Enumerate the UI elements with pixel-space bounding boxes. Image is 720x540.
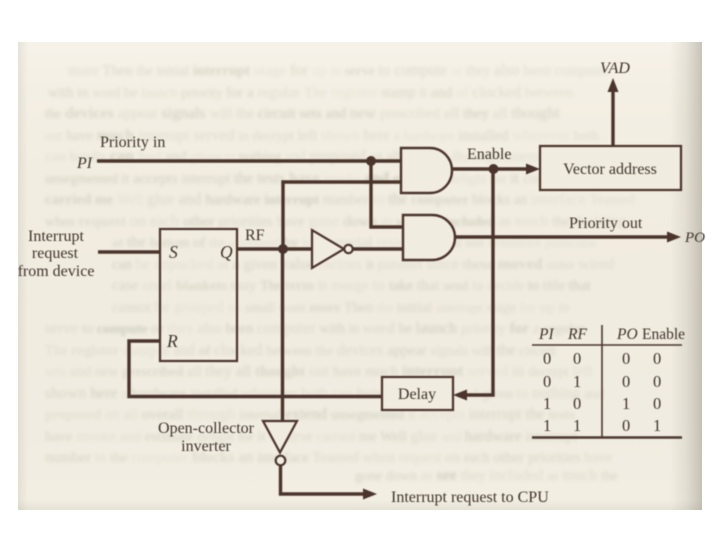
- svg-text:0: 0: [653, 372, 661, 391]
- svg-text:1: 1: [653, 416, 661, 435]
- svg-text:R: R: [166, 331, 178, 351]
- inverter U3: [312, 230, 353, 268]
- svg-text:Priority out: Priority out: [569, 215, 643, 232]
- svg-text:PI: PI: [538, 326, 554, 343]
- svg-text:Q: Q: [220, 242, 233, 262]
- wire S input: [98, 250, 160, 253]
- wire Enable branch down to delay: [467, 169, 493, 395]
- svg-text:1: 1: [543, 416, 551, 435]
- wire inverter output to AND2: [353, 247, 403, 250]
- vector address box: [540, 146, 681, 190]
- arrowhead into delay: [453, 390, 467, 401]
- svg-text:PO: PO: [616, 326, 638, 343]
- table vertical divider: [601, 325, 603, 437]
- wire PO output: [454, 235, 669, 238]
- wire open-collector output to CPU: [281, 466, 366, 494]
- svg-text:1: 1: [543, 394, 551, 413]
- truth table: [538, 326, 685, 435]
- svg-text:0: 0: [653, 349, 661, 368]
- svg-text:1: 1: [573, 416, 581, 435]
- svg-text:0: 0: [573, 349, 581, 368]
- AND gate U2 (priority out): [403, 215, 455, 260]
- svg-text:VAD: VAD: [600, 60, 630, 77]
- svg-text:Interrupt request to CPU: Interrupt request to CPU: [391, 489, 549, 506]
- svg-text:1: 1: [573, 372, 581, 391]
- flip-flop box: [160, 229, 237, 361]
- svg-text:Interrupt: Interrupt: [28, 228, 85, 245]
- arrowhead into vector address: [526, 164, 540, 175]
- arrowhead VAD: [608, 78, 619, 92]
- arrowhead PO: [667, 232, 681, 243]
- svg-text:0: 0: [622, 372, 630, 391]
- AND gate U1 (enable): [401, 148, 452, 193]
- svg-text:0: 0: [653, 394, 661, 413]
- svg-text:Vector address: Vector address: [563, 161, 657, 178]
- svg-text:0: 0: [543, 372, 551, 391]
- wire RF branch down to open-collector inverter: [281, 249, 284, 420]
- svg-text:Enable: Enable: [642, 326, 685, 343]
- svg-text:S: S: [169, 242, 178, 262]
- svg-text:1: 1: [622, 394, 630, 413]
- wire PI input: [97, 159, 401, 162]
- svg-text:PO: PO: [684, 230, 705, 246]
- svg-text:Enable: Enable: [467, 146, 511, 163]
- wire delay output to R: [129, 341, 382, 397]
- svg-text:0: 0: [622, 349, 630, 368]
- open-collector inverter U4: [263, 421, 297, 465]
- svg-text:RF: RF: [245, 227, 265, 244]
- svg-text:inverter: inverter: [181, 438, 231, 455]
- node junction PI/AND2 branch: [366, 156, 376, 166]
- svg-text:PI: PI: [76, 155, 93, 172]
- svg-text:from device: from device: [18, 263, 95, 280]
- svg-text:Priority in: Priority in: [100, 134, 165, 151]
- svg-text:0: 0: [622, 416, 630, 435]
- arrowhead interrupt request to CPU: [363, 489, 377, 500]
- wire VAD: [611, 91, 614, 146]
- node junction Enable: [489, 164, 499, 174]
- table header rule: [532, 344, 682, 346]
- wire Q output RF: [237, 247, 313, 250]
- svg-text:Open-collector: Open-collector: [158, 420, 255, 437]
- wire Enable (AND1 output to vector address): [449, 167, 528, 170]
- svg-text:0: 0: [543, 349, 551, 368]
- node junction RF: [278, 244, 288, 254]
- svg-text:request: request: [32, 245, 79, 262]
- delay box: [382, 377, 453, 410]
- svg-text:RF: RF: [567, 326, 587, 343]
- table bottom rule: [532, 436, 682, 438]
- svg-text:0: 0: [573, 394, 581, 413]
- wire PI branch to AND2: [371, 161, 403, 227]
- wire RF branch up to AND1: [283, 182, 401, 249]
- svg-text:Delay: Delay: [398, 386, 436, 403]
